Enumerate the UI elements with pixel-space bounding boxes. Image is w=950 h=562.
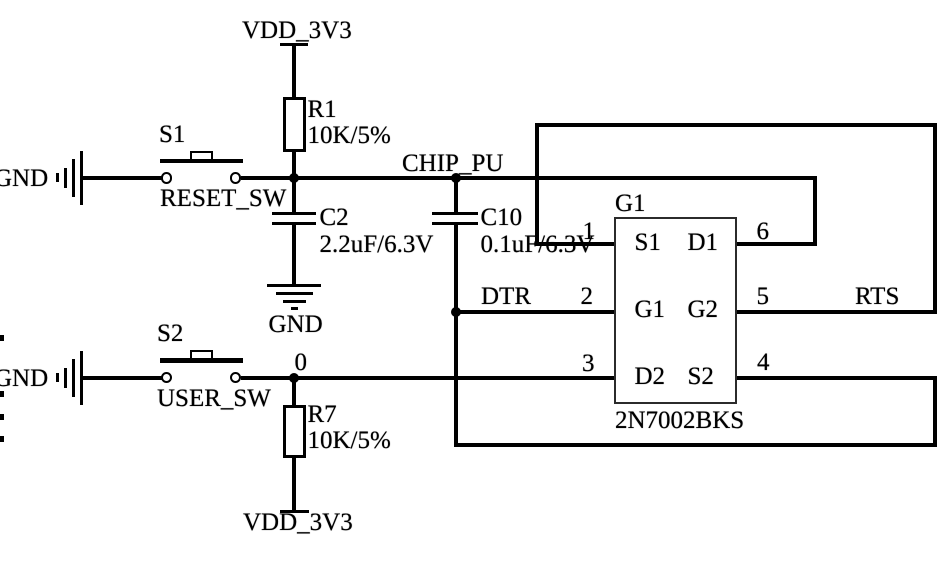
wire S1 to CHIP_PU net	[241, 176, 817, 180]
wire node to R7	[292, 378, 296, 406]
wire R1 to node CHIP_PU	[292, 151, 296, 178]
label RESET_SW	[160, 186, 286, 211]
wire pin 4 right vertical	[933, 378, 937, 448]
power symbol VDD_3V3 (bottom)	[280, 510, 309, 513]
left edge tick 2	[0, 391, 4, 397]
pin number 5	[757, 284, 770, 309]
capacitor C2	[0, 0, 950, 1]
junction node DTR	[451, 307, 461, 317]
pin name D1	[688, 230, 719, 255]
wire CHIP_PU to C10	[454, 178, 458, 212]
capacitor C10	[0, 0, 950, 1]
wire GND to switch S2	[83, 376, 162, 380]
pin number 4	[757, 350, 770, 375]
resistor R7	[283, 405, 307, 458]
left edge tick 3	[0, 414, 4, 420]
net label GND (lower left)	[0, 366, 48, 391]
label R1	[308, 97, 337, 122]
ground symbol GND (lower left)	[0, 0, 950, 1]
wire C2 to GND	[292, 225, 296, 286]
pin name S1	[635, 230, 661, 255]
switch S1 right pin circle	[230, 172, 241, 183]
wire CHIP_PU to C2	[292, 178, 296, 213]
wire pin 6 (D1)	[737, 242, 817, 246]
wire bottom return horizontal	[454, 443, 937, 447]
value 10K/5% (R1)	[308, 123, 391, 148]
label C10	[481, 205, 523, 230]
pin name G1	[635, 297, 666, 322]
net label GND (below C2)	[269, 312, 323, 337]
switch S2 right pin circle	[230, 372, 241, 383]
net label CHIP_PU	[402, 151, 503, 176]
label S2	[157, 321, 183, 346]
junction node S2/R7	[289, 373, 299, 383]
value 0.1uF/6.3V	[481, 232, 595, 257]
pin number 1	[583, 219, 596, 244]
switch S2 button	[190, 350, 213, 358]
wire GND to switch S1	[83, 176, 162, 180]
part number 2N7002BKS	[615, 408, 744, 433]
label R7	[308, 402, 337, 427]
transistor G1 body	[614, 217, 737, 404]
net label GND (upper left)	[0, 166, 48, 191]
junction node CHIP_PU/C10	[451, 173, 461, 183]
pin name S2	[688, 364, 714, 389]
net label 0	[295, 350, 308, 375]
power symbol VDD_3V3 (top)	[280, 43, 308, 46]
value 2.2uF/6.3V	[320, 232, 434, 257]
net label VDD_3V3 (top)	[242, 18, 352, 43]
pin number 6	[757, 219, 770, 244]
junction node R1/S1/C2	[289, 173, 299, 183]
wire C10 down to DTR and bottom net	[454, 225, 458, 447]
switch S2 left pin circle	[161, 372, 172, 383]
pin name G2	[688, 297, 719, 322]
switch S1 button	[190, 151, 213, 159]
label USER_SW	[157, 386, 271, 411]
pin number 3	[582, 351, 595, 376]
wire S2 to pin 3 (D2)	[241, 376, 616, 380]
resistor R1	[283, 97, 307, 152]
left edge tick 4	[0, 436, 4, 442]
switch S2 bar	[160, 358, 243, 363]
wire pin 1 (S1)	[535, 242, 615, 246]
wire pin 4 (S2)	[737, 376, 937, 380]
switch S1 bar	[160, 159, 243, 164]
label G1	[615, 191, 646, 216]
wire DTR to pin 2	[454, 310, 615, 314]
left edge tick 1	[0, 335, 4, 341]
pin number 2	[581, 284, 594, 309]
net label RTS	[855, 284, 899, 309]
label S1	[159, 122, 185, 147]
ground symbol GND (upper left)	[0, 0, 950, 1]
value 10K/5% (R7)	[308, 428, 391, 453]
wire CHIP_PU right segment up-over to pin 6	[813, 178, 817, 246]
wire top loop right vertical	[933, 123, 937, 314]
wire VDD to R1	[292, 45, 296, 98]
net label VDD_3V3 (bottom)	[243, 510, 353, 535]
net label DTR	[481, 284, 531, 309]
switch S1 left pin circle	[161, 172, 172, 183]
pin name D2	[635, 364, 666, 389]
wire pin 5 (G2) to RTS	[737, 310, 937, 314]
wire R7 to VDD	[292, 458, 296, 512]
label C2	[320, 205, 349, 230]
wire top loop left vertical	[535, 123, 539, 246]
earth ground below C2	[0, 0, 950, 1]
wire top loop horizontal	[535, 123, 938, 127]
